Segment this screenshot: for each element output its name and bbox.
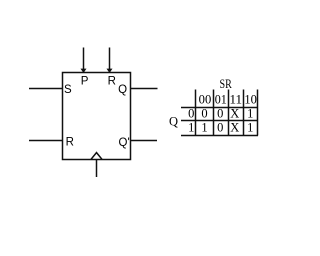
- svg-text:R: R: [66, 137, 74, 149]
- svg-text:10: 10: [244, 92, 257, 106]
- svg-text:X: X: [230, 121, 239, 135]
- svg-text:Q: Q: [169, 114, 178, 128]
- svg-text:0: 0: [201, 107, 207, 121]
- svg-text:00: 00: [199, 92, 212, 106]
- svg-text:11: 11: [230, 92, 243, 106]
- svg-text:1: 1: [247, 121, 253, 135]
- svg-text:Q: Q: [118, 84, 127, 96]
- svg-text:X: X: [230, 107, 239, 121]
- svg-text:0: 0: [217, 107, 223, 121]
- svg-text:R: R: [108, 76, 116, 88]
- svg-text:P: P: [81, 76, 89, 88]
- svg-text:1: 1: [201, 121, 207, 135]
- svg-text:01: 01: [215, 92, 227, 106]
- svg-text:1: 1: [188, 121, 194, 135]
- svg-text:0: 0: [188, 107, 194, 121]
- svg-text:S: S: [64, 84, 72, 96]
- svg-text:Q': Q': [119, 137, 130, 149]
- svg-text:1: 1: [247, 107, 253, 121]
- svg-text:SR: SR: [220, 77, 233, 91]
- svg-text:0: 0: [217, 121, 223, 135]
